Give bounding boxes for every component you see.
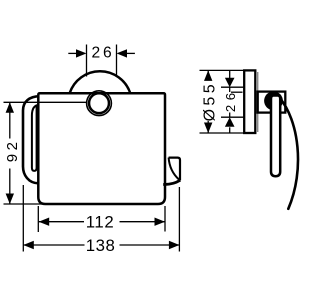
svg-text:112: 112 — [86, 213, 115, 232]
svg-text:Ø55: Ø55 — [202, 81, 219, 121]
svg-text:26: 26 — [92, 45, 115, 62]
svg-text:138: 138 — [86, 236, 116, 255]
svg-text:92: 92 — [4, 139, 21, 163]
svg-text:26: 26 — [223, 88, 238, 112]
